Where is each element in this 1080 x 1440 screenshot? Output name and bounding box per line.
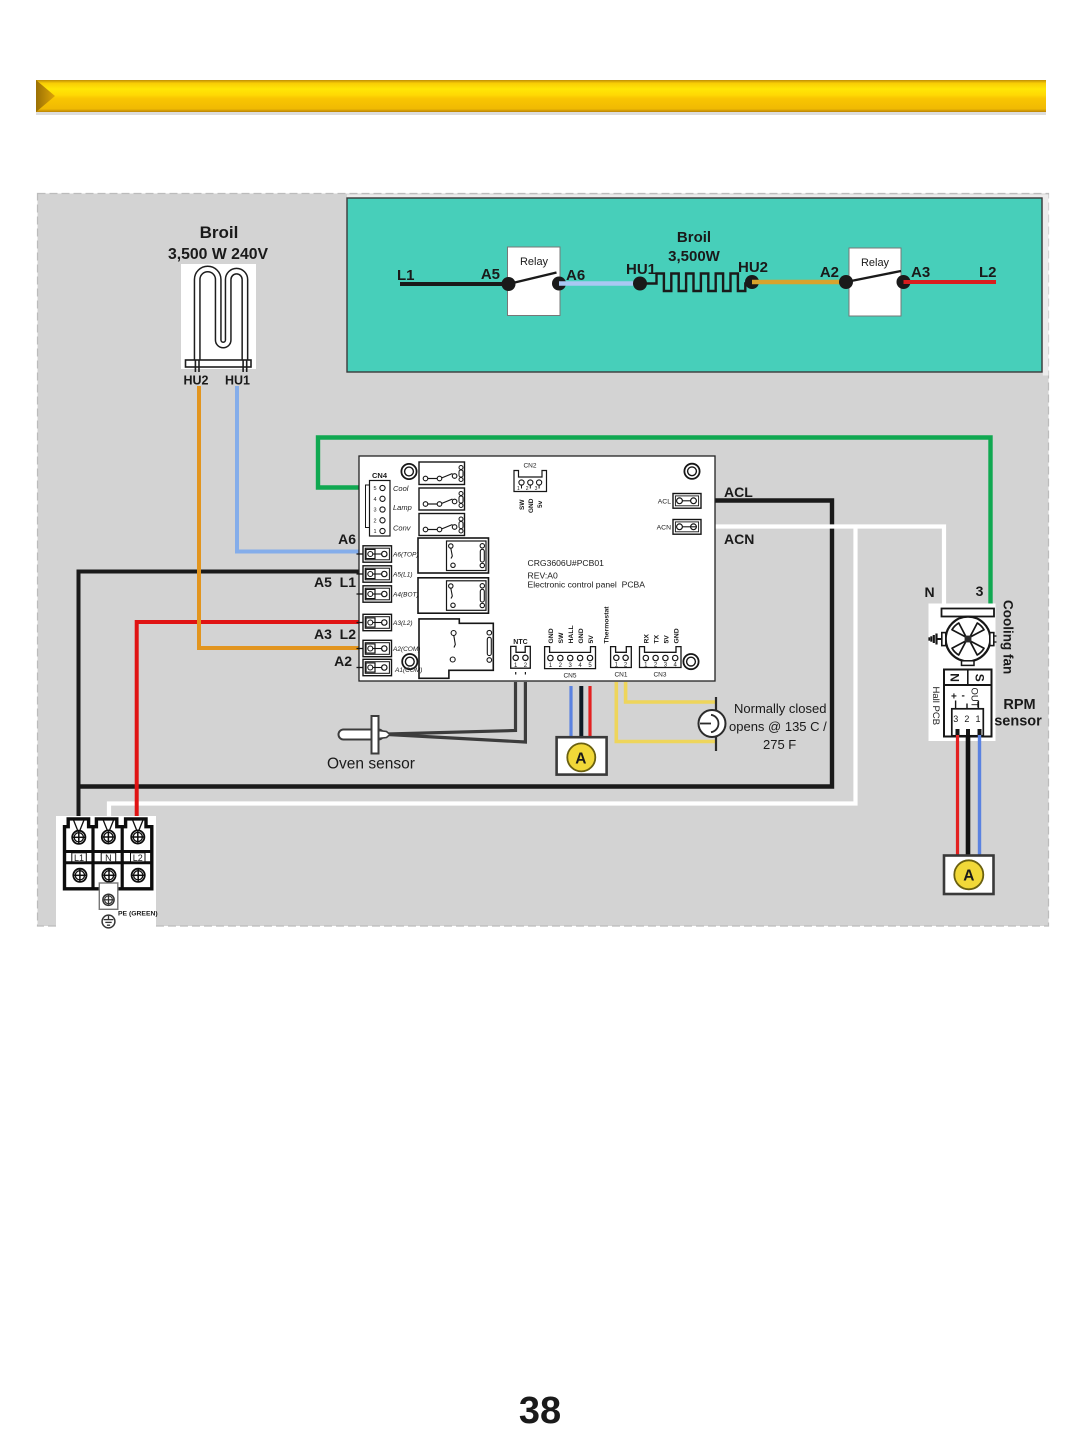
label Broil 3,500W (teal panel) bbox=[668, 229, 721, 265]
svg-text:N: N bbox=[924, 584, 934, 600]
wire entry clamp L1 bbox=[74, 820, 85, 830]
wire CN5 black to ammeter A1 bbox=[579, 686, 583, 739]
svg-text:A4(BOT): A4(BOT) bbox=[392, 592, 419, 599]
svg-text:A6(TOP): A6(TOP) bbox=[392, 552, 419, 559]
relay RL5 (big, middle) bbox=[418, 578, 489, 613]
svg-text:1: 1 bbox=[373, 529, 376, 535]
svg-text:5V: 5V bbox=[664, 635, 671, 644]
node A2 bbox=[839, 275, 853, 289]
svg-text:A5 L1: A5 L1 bbox=[314, 574, 356, 590]
svg-text:Cooling fan: Cooling fan bbox=[1001, 600, 1016, 674]
relay RL1 (top small) bbox=[419, 462, 465, 485]
tab terminal A3(L2) bbox=[357, 614, 392, 630]
terminal L2 screw (top) bbox=[131, 830, 144, 843]
terminal N screw (bottom) bbox=[102, 869, 115, 882]
svg-text:HALL: HALL bbox=[568, 625, 575, 643]
teal circuit panel bbox=[347, 198, 1042, 372]
svg-text:-: - bbox=[962, 691, 965, 702]
svg-text:CN2: CN2 bbox=[523, 463, 536, 470]
svg-text:CN5: CN5 bbox=[563, 673, 576, 680]
connector CN3 bbox=[640, 647, 682, 669]
wire green: PCB CN4 Cool to cooling fan terminal 3 bbox=[318, 438, 991, 609]
svg-text:HU1: HU1 bbox=[225, 374, 250, 388]
svg-text:Broil: Broil bbox=[677, 229, 711, 246]
svg-text:SW: SW bbox=[558, 632, 565, 644]
svg-text:A2(COM): A2(COM) bbox=[392, 646, 420, 653]
terminal block TB1 outline bbox=[65, 819, 152, 889]
svg-text:GND: GND bbox=[528, 498, 535, 513]
wire hall pin2 black to ammeter A2 bbox=[966, 735, 971, 856]
broil heating element HE1 bbox=[181, 264, 256, 372]
thermostat TH1 bbox=[699, 697, 726, 751]
title bar bbox=[36, 80, 1046, 115]
svg-text:A: A bbox=[963, 868, 974, 885]
svg-text:sensor: sensor bbox=[994, 714, 1042, 730]
wire CN1 pin2 yellow to thermostat (upper) bbox=[626, 682, 716, 702]
connector CN4 bbox=[366, 471, 391, 536]
svg-text:3: 3 bbox=[953, 714, 958, 724]
wire L1-A5 (teal, black) bbox=[400, 282, 508, 286]
node HU2 bbox=[745, 275, 759, 289]
terminal block background bbox=[56, 816, 156, 927]
relay RL2 (middle small) bbox=[419, 488, 465, 510]
connector ACL bbox=[673, 494, 701, 509]
tab terminal A4(BOT) bbox=[357, 586, 392, 602]
svg-text:Oven sensor: Oven sensor bbox=[327, 756, 415, 773]
svg-text:2: 2 bbox=[526, 486, 529, 492]
svg-text:5v: 5v bbox=[537, 500, 544, 508]
wire CN1 pin1 yellow to thermostat (lower) bbox=[616, 682, 716, 742]
svg-text:2: 2 bbox=[964, 714, 969, 724]
wire hall pin1 blue to ammeter A2 bbox=[978, 735, 981, 856]
svg-text:CN1: CN1 bbox=[614, 672, 627, 679]
svg-text:A2: A2 bbox=[334, 653, 352, 669]
wire ACN white: ACN connector to fan N and terminal N bbox=[701, 527, 944, 609]
svg-text:A3(L2): A3(L2) bbox=[392, 620, 413, 627]
terminal L1 screw (top) bbox=[72, 831, 85, 844]
svg-text:Electronic control panel PCBA: Electronic control panel PCBA bbox=[528, 580, 646, 590]
svg-text:A2: A2 bbox=[820, 264, 839, 281]
relay K2 bbox=[849, 248, 901, 316]
svg-text:A3 L2: A3 L2 bbox=[314, 626, 356, 642]
wire hall pin3 red to ammeter A2 bbox=[956, 735, 959, 856]
wire A3-L2 red: PCB tab A3(L2) to terminal L2 bbox=[137, 622, 359, 828]
hall sensor N/S box bbox=[944, 670, 992, 686]
svg-text:PE (GREEN): PE (GREEN) bbox=[118, 911, 158, 918]
ground screw symbol bbox=[102, 915, 115, 928]
svg-text:A: A bbox=[575, 751, 586, 768]
svg-text:5V: 5V bbox=[588, 635, 595, 644]
svg-text:Relay: Relay bbox=[520, 256, 549, 268]
wire entry clamp L2 bbox=[133, 820, 143, 830]
resistor broil element (teal) bbox=[640, 274, 752, 292]
svg-text:NTC: NTC bbox=[513, 639, 527, 646]
svg-text:3: 3 bbox=[976, 583, 984, 599]
wire HU1-A6 blue: broil element HU1 to PCB tab A6 bbox=[237, 386, 359, 552]
node A3 bbox=[897, 275, 911, 289]
svg-text:CN3: CN3 bbox=[653, 672, 666, 679]
wire NTC pin2 to oven sensor (dark gray) bbox=[388, 682, 525, 742]
wire A6-HU1 (pale blue) bbox=[559, 281, 640, 285]
svg-text:A6: A6 bbox=[338, 531, 356, 547]
svg-text:Lamp: Lamp bbox=[393, 503, 412, 512]
svg-text:Cool: Cool bbox=[393, 484, 409, 493]
tab terminal A1(COM) bbox=[357, 659, 392, 675]
svg-text:Relay: Relay bbox=[861, 257, 890, 269]
svg-text:2: 2 bbox=[373, 518, 376, 524]
svg-text:ACN: ACN bbox=[657, 525, 671, 532]
fan motor shaft and coil (left) bbox=[929, 633, 946, 646]
label L1 (terminal) bbox=[72, 853, 87, 863]
svg-text:3: 3 bbox=[535, 486, 538, 492]
tab terminal A2(COM) bbox=[357, 640, 392, 656]
svg-text:opens @ 135 C /: opens @ 135 C / bbox=[729, 719, 827, 734]
svg-text:1: 1 bbox=[975, 714, 980, 724]
relay K1 switch arm bbox=[509, 273, 557, 285]
svg-text:S: S bbox=[972, 674, 986, 682]
connector NTC bbox=[511, 639, 531, 675]
tab terminal A5(L1) bbox=[357, 566, 392, 582]
svg-text:HU1: HU1 bbox=[626, 261, 656, 278]
connector ACN bbox=[673, 520, 701, 535]
svg-text:GND: GND bbox=[674, 628, 681, 643]
oven sensor probe bbox=[339, 716, 391, 754]
terminal L1 screw (bottom) bbox=[73, 869, 86, 882]
svg-text:L1: L1 bbox=[74, 853, 84, 863]
connector CN5 bbox=[545, 647, 596, 669]
board text CRG3606U#PCB01 REV:A0 bbox=[528, 558, 646, 590]
svg-text:ACL: ACL bbox=[658, 499, 671, 506]
mounting hole bottom-right bbox=[683, 654, 698, 669]
cooling fan assembly background bbox=[929, 604, 996, 742]
svg-text:RX: RX bbox=[644, 634, 651, 644]
mounting hole bottom-left bbox=[402, 654, 417, 669]
svg-text:RPM: RPM bbox=[1003, 697, 1035, 713]
hall PCB body bbox=[944, 685, 992, 737]
svg-text:3: 3 bbox=[373, 508, 376, 514]
wire CN5 red to ammeter A1 bbox=[588, 686, 591, 739]
svg-text:3,500W: 3,500W bbox=[668, 248, 721, 265]
wire CN5 blue to ammeter A1 bbox=[569, 686, 572, 739]
svg-text:A5(L1): A5(L1) bbox=[392, 572, 413, 579]
svg-text:Hall PCB: Hall PCB bbox=[930, 687, 941, 726]
svg-text:A1(COM): A1(COM) bbox=[394, 667, 422, 674]
wire A3-L2 (teal, red) bbox=[904, 280, 997, 284]
relay K2 switch arm bbox=[846, 271, 901, 282]
ammeter A2 bbox=[944, 856, 994, 895]
wire HU2-A2 orange: broil element HU2 to PCB tab A2 bbox=[199, 386, 359, 648]
fan bottom tick bbox=[962, 661, 975, 666]
diagram background bbox=[38, 194, 1049, 927]
control board PCB outline bbox=[359, 456, 715, 681]
PE screw bbox=[103, 894, 114, 905]
label Broil 3,500 W 240V (heading) bbox=[168, 223, 269, 263]
connector CN2 bbox=[514, 463, 547, 493]
svg-text:GND: GND bbox=[548, 628, 555, 643]
svg-text:HU2: HU2 bbox=[738, 259, 768, 276]
wire ACL black: ACL connector to terminal L1 bbox=[79, 501, 833, 787]
svg-text:Broil: Broil bbox=[200, 223, 239, 242]
teal panel surround highlight bbox=[347, 195, 1049, 199]
svg-text:TX: TX bbox=[654, 634, 661, 643]
PE extension block bbox=[99, 883, 118, 909]
terminal L2 screw (bottom) bbox=[132, 869, 145, 882]
wire entry clamp N bbox=[103, 820, 113, 830]
tab terminal A6(TOP) bbox=[357, 546, 392, 562]
label N (terminal) bbox=[101, 853, 116, 863]
node A6 bbox=[552, 277, 566, 291]
relay RL6 (big, bottom) bbox=[419, 619, 493, 678]
svg-text:HU2: HU2 bbox=[183, 374, 208, 388]
label RPM sensor bbox=[994, 697, 1042, 730]
mounting hole top-left bbox=[401, 464, 416, 479]
svg-text:38: 38 bbox=[519, 1390, 561, 1432]
svg-text:1: 1 bbox=[517, 486, 520, 492]
svg-text:SW: SW bbox=[519, 499, 526, 510]
svg-text:L1: L1 bbox=[397, 267, 415, 284]
ammeter A1 bbox=[557, 737, 607, 774]
svg-text:4: 4 bbox=[373, 497, 376, 503]
svg-text:Thermostat: Thermostat bbox=[604, 606, 611, 644]
svg-text:CN4: CN4 bbox=[372, 471, 388, 480]
node A5 bbox=[502, 277, 516, 291]
svg-text:L2: L2 bbox=[979, 264, 997, 281]
svg-text:CRG3606U#PCB01: CRG3606U#PCB01 bbox=[528, 558, 605, 568]
svg-text:N: N bbox=[105, 853, 112, 863]
note Normally closed opens @ 135 C / 275 F bbox=[729, 701, 827, 752]
svg-text:Conv: Conv bbox=[393, 524, 412, 533]
mounting hole top-right bbox=[684, 464, 699, 479]
relay K1 bbox=[508, 247, 561, 316]
terminal N screw (top) bbox=[102, 830, 115, 843]
svg-text:ACL: ACL bbox=[724, 484, 753, 500]
fan mounting plate bbox=[942, 609, 995, 621]
label L2 (terminal) bbox=[131, 853, 146, 863]
svg-text:5: 5 bbox=[373, 486, 376, 492]
relay RL3 (bottom small) bbox=[419, 514, 465, 536]
wire HU2-A2 (amber) bbox=[752, 280, 846, 284]
svg-text:A3: A3 bbox=[911, 264, 930, 281]
node HU1 bbox=[633, 277, 647, 291]
svg-text:N: N bbox=[948, 673, 962, 682]
svg-text:ACN: ACN bbox=[724, 531, 754, 547]
svg-text:Normally closed: Normally closed bbox=[734, 701, 826, 716]
cooling fan M1 (pinwheel) bbox=[946, 617, 991, 662]
svg-text:L2: L2 bbox=[133, 853, 143, 863]
svg-text:A5: A5 bbox=[481, 266, 500, 283]
svg-text:GND: GND bbox=[578, 628, 585, 643]
wire A5-L1 black: PCB tab A5(L1) to terminal L1 bbox=[79, 572, 360, 829]
wire NTC pin1 to oven sensor (dark gray) bbox=[388, 682, 516, 734]
relay RL4 (big, top) bbox=[418, 538, 489, 573]
svg-text:3,500 W 240V: 3,500 W 240V bbox=[168, 246, 269, 263]
fan right stub bbox=[990, 633, 997, 646]
svg-text:275 F: 275 F bbox=[763, 737, 796, 752]
connector CN1 bbox=[611, 647, 632, 669]
